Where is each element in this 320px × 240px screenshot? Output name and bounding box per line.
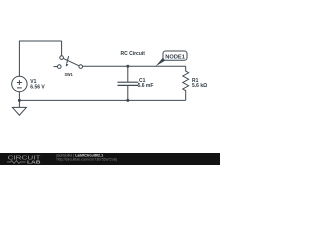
svg-text:6.56 V: 6.56 V bbox=[30, 84, 45, 90]
junction dot ground node bbox=[18, 99, 21, 102]
footer CircuitLab logo bbox=[7, 155, 41, 164]
svg-text:LAB: LAB bbox=[27, 160, 41, 165]
wire top-left vertical from V1 up bbox=[18, 41, 20, 76]
junction dot C1 top bbox=[126, 65, 129, 68]
label SW1 bbox=[65, 72, 74, 77]
footer caption line 1 bbox=[56, 154, 104, 158]
svg-text:NODE1: NODE1 bbox=[165, 55, 185, 61]
svg-text:http://circuitlab.com/c/e73br5: http://circuitlab.com/c/e73br55a72u6j bbox=[57, 157, 117, 161]
label C1 bbox=[139, 78, 146, 84]
switch SW1 bbox=[54, 56, 83, 69]
svg-text:5.6 mF: 5.6 mF bbox=[138, 83, 154, 89]
footer caption line 2 bbox=[57, 157, 117, 161]
value 6.56 V bbox=[30, 84, 45, 90]
wire bottom rail bbox=[19, 99, 185, 101]
ground bbox=[12, 100, 26, 115]
label V1 bbox=[30, 79, 36, 85]
voltage source V1 bbox=[12, 76, 27, 91]
node NODE1 flag bbox=[156, 51, 187, 66]
junction dot C1 bottom bbox=[126, 99, 129, 102]
svg-text:SW1: SW1 bbox=[65, 72, 74, 77]
value 5.6 kOhm bbox=[192, 83, 207, 89]
wire V1 bottom to ground junction bbox=[18, 92, 20, 101]
svg-text:RC Circuit: RC Circuit bbox=[121, 51, 146, 57]
wire switch feed vertical bbox=[61, 41, 63, 56]
value 5.6 mF bbox=[138, 83, 154, 89]
svg-text:5.6 kΩ: 5.6 kΩ bbox=[192, 83, 207, 89]
wire top rail from switch to R1 bbox=[83, 65, 186, 67]
capacitor C1 bbox=[118, 66, 139, 100]
wire top horizontal bbox=[19, 40, 62, 42]
footer bar bbox=[0, 153, 220, 165]
label RC Circuit bbox=[121, 51, 146, 57]
label R1 bbox=[192, 78, 199, 84]
resistor R1 bbox=[183, 66, 189, 100]
